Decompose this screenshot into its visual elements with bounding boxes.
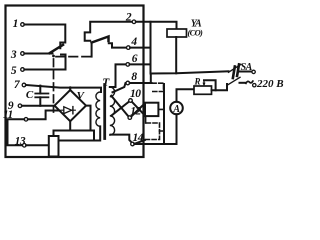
- wire pin14 to ammeter: [134, 143, 176, 145]
- transformer T: [59, 77, 115, 141]
- node contact1 pivot dot: [52, 55, 55, 58]
- relay contact K2 seat from pin2: [85, 22, 133, 41]
- wire secondary tap to pin10 (crossing): [111, 102, 129, 116]
- core lines: [103, 85, 106, 139]
- svg-text:C: C: [26, 89, 34, 101]
- blade bar 2: [237, 64, 239, 76]
- wire pin13 to fuse resistor: [26, 144, 49, 146]
- wire pin11 to bridge lower-left edge: [28, 111, 58, 120]
- svg-text:6: 6: [132, 53, 138, 65]
- switch SA: [228, 62, 256, 87]
- svg-text:3: 3: [10, 49, 17, 61]
- wire secondary bottom to pin14: [111, 135, 133, 143]
- blade bar 1: [233, 67, 235, 79]
- wire pin4 to lower fixed contact of K2: [109, 43, 130, 47]
- node bridge top junction: [69, 86, 72, 89]
- wire secondary tap to pin8: [113, 83, 131, 92]
- svg-text:A: A: [172, 104, 180, 115]
- device box: [6, 6, 144, 158]
- wire pin4 to bus: [130, 47, 150, 49]
- load right stubs: [158, 109, 164, 131]
- load heater dashed box 2: [146, 123, 160, 140]
- wire to upper terminal: [240, 71, 252, 73]
- pin 12: [128, 106, 142, 120]
- terminal upper: [252, 70, 255, 73]
- svg-text:R: R: [193, 77, 200, 87]
- wire solid box to load3: [145, 117, 147, 123]
- wire pin10 to load2 bottom (cross): [132, 102, 145, 116]
- blade bottom link: [228, 77, 240, 85]
- wire pin8 to load and rail tie: [130, 82, 152, 84]
- ammeter A: [170, 89, 194, 144]
- relay contact K1 arm: [50, 45, 64, 53]
- wire secondary tap to pin12 (crossing): [111, 96, 128, 117]
- wire pin12 to load2 top (cross): [131, 103, 145, 116]
- svg-text:220 B: 220 B: [256, 78, 284, 90]
- wire load3 bottom to pin14: [134, 140, 145, 144]
- wire pin9 to bridge left vertex: [22, 105, 55, 107]
- pin 10: [129, 88, 142, 102]
- capacitor C plates: [26, 86, 49, 106]
- relay contact K2 common lead: [91, 43, 93, 57]
- wire secondary top to pin6: [110, 64, 127, 87]
- wire bridge right vertex down: [86, 106, 91, 131]
- pin 6: [126, 53, 138, 66]
- pin 9: [8, 100, 22, 112]
- pin 7: [14, 79, 26, 91]
- pin 1: [13, 18, 25, 30]
- wire bridge bottom node: [54, 131, 95, 141]
- svg-text:8: 8: [131, 71, 137, 83]
- rail to switch: [151, 71, 229, 73]
- pin 2: [125, 12, 136, 24]
- svg-text:10: 10: [130, 88, 141, 100]
- source 220V label: [246, 78, 284, 90]
- secondary winding: [110, 87, 115, 135]
- wire pin5 to lower fixed contact: [24, 55, 65, 70]
- bus rows 2-4-6 right of box: [150, 22, 152, 74]
- wire pin1 to contact seat: [24, 25, 65, 49]
- pin 5: [11, 65, 24, 77]
- mechanical link vertical dashes: [53, 59, 55, 112]
- svg-text:4: 4: [130, 36, 137, 48]
- mechanical link horizontal dashes: [56, 56, 92, 58]
- blade top link: [229, 64, 242, 72]
- rectifier V bridge diamond: [55, 88, 87, 131]
- pin 3: [10, 49, 24, 61]
- diode inside bridge: [64, 107, 72, 114]
- svg-text:13: 13: [15, 135, 26, 147]
- pin 4: [127, 36, 138, 49]
- wire pin11 left loop to pin13: [8, 119, 25, 145]
- resistor R: [193, 77, 227, 95]
- load heater dashed box 1: [153, 83, 164, 91]
- wire to lower terminal: [240, 82, 246, 84]
- wire pin7 to transformer primary top: [26, 85, 101, 92]
- terminal lower: [253, 84, 256, 87]
- svg-text:2: 2: [125, 12, 132, 24]
- coil YA: [167, 19, 203, 74]
- primary winding: [96, 92, 100, 126]
- svg-text:1: 1: [13, 18, 19, 30]
- wiper arrow: [203, 80, 205, 84]
- wire pin6 to bus: [130, 63, 151, 65]
- fuse resistor bottom: [49, 136, 59, 157]
- load bus vertical: [163, 84, 165, 144]
- pin 8: [126, 71, 137, 85]
- wire pin3 to contact pivot: [24, 53, 52, 55]
- wire pin2 to YA: [136, 22, 177, 29]
- svg-text:5: 5: [11, 65, 17, 77]
- load heater solid box: [145, 103, 158, 116]
- pin 11: [3, 109, 28, 121]
- svg-text:(CO): (CO): [188, 28, 204, 38]
- relay contact K2 arm: [92, 37, 109, 43]
- pin 13: [15, 135, 26, 147]
- wire bridge node to fuse top: [53, 131, 55, 137]
- pin 14: [131, 132, 144, 146]
